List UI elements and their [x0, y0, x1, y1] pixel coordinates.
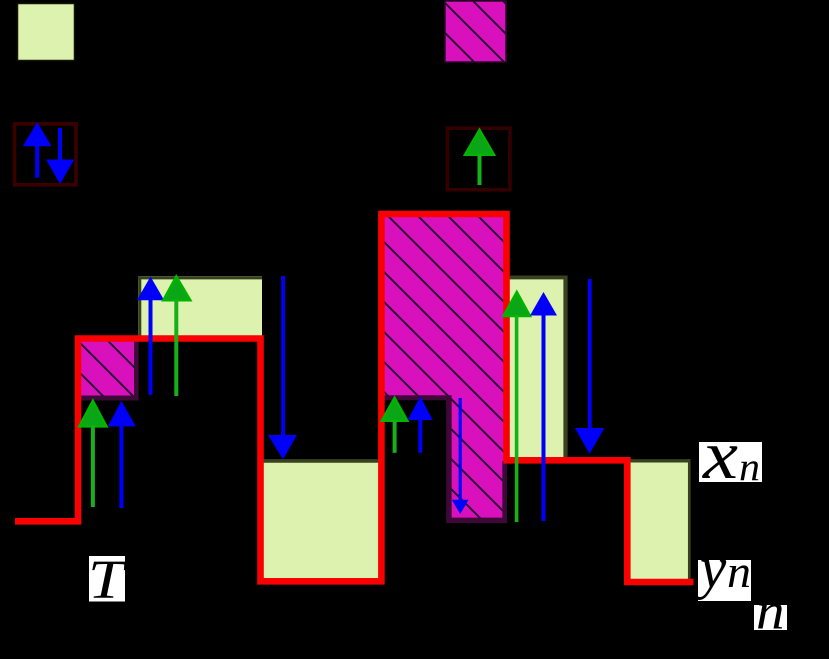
long green up arrow h (in green C) [504, 292, 531, 522]
label x_n [699, 417, 762, 493]
svg-text:T: T [88, 549, 128, 610]
M2 notch right dark border [446, 395, 452, 520]
svg-text:n: n [756, 583, 785, 641]
M2 lower-right dark border [502, 461, 507, 521]
legend blue up arrow [23, 122, 52, 177]
M1 dark bottom border [77, 396, 139, 401]
green rect B [258, 460, 382, 583]
M2 notch top dark border [381, 395, 449, 400]
long blue down arrow e [268, 276, 297, 459]
legend blue down arrow [46, 128, 74, 184]
blue up arrow c (into green A) [137, 277, 164, 395]
long blue up arrow i (in green C) [530, 292, 557, 521]
svg-text:y: y [695, 535, 727, 601]
green up arrow f (in notch) [382, 398, 408, 453]
svg-text:n: n [739, 444, 760, 489]
legend hatched magenta square [445, 1, 506, 62]
legend box blue arrows [15, 124, 77, 185]
svg-text:n: n [727, 547, 751, 597]
M1 dark right border [134, 340, 139, 400]
green rect A [138, 276, 262, 340]
label n [754, 583, 787, 641]
green rect D [624, 459, 691, 583]
green up arrow d (into green A) [163, 277, 190, 397]
blue up arrow b (below M1) [108, 401, 136, 508]
long blue down arrow k (right of green C) [575, 279, 605, 454]
blue down arrow j (in magenta M2) [452, 398, 469, 514]
green up arrow a (below M1) [79, 401, 106, 507]
green rect C [504, 276, 567, 462]
legend green square [18, 4, 75, 61]
M2 bottom dark border [446, 518, 507, 524]
magenta rect M1 [79, 341, 137, 398]
svg-text:x: x [702, 417, 739, 493]
red staircase y_n [15, 214, 694, 582]
legend green up arrow [465, 130, 494, 185]
label T [88, 549, 128, 610]
label y_n [695, 535, 751, 602]
magenta region M2 (inverted-L) [381, 215, 505, 520]
blue up arrow g (in notch) [408, 397, 433, 453]
legend box green arrow [447, 128, 510, 190]
